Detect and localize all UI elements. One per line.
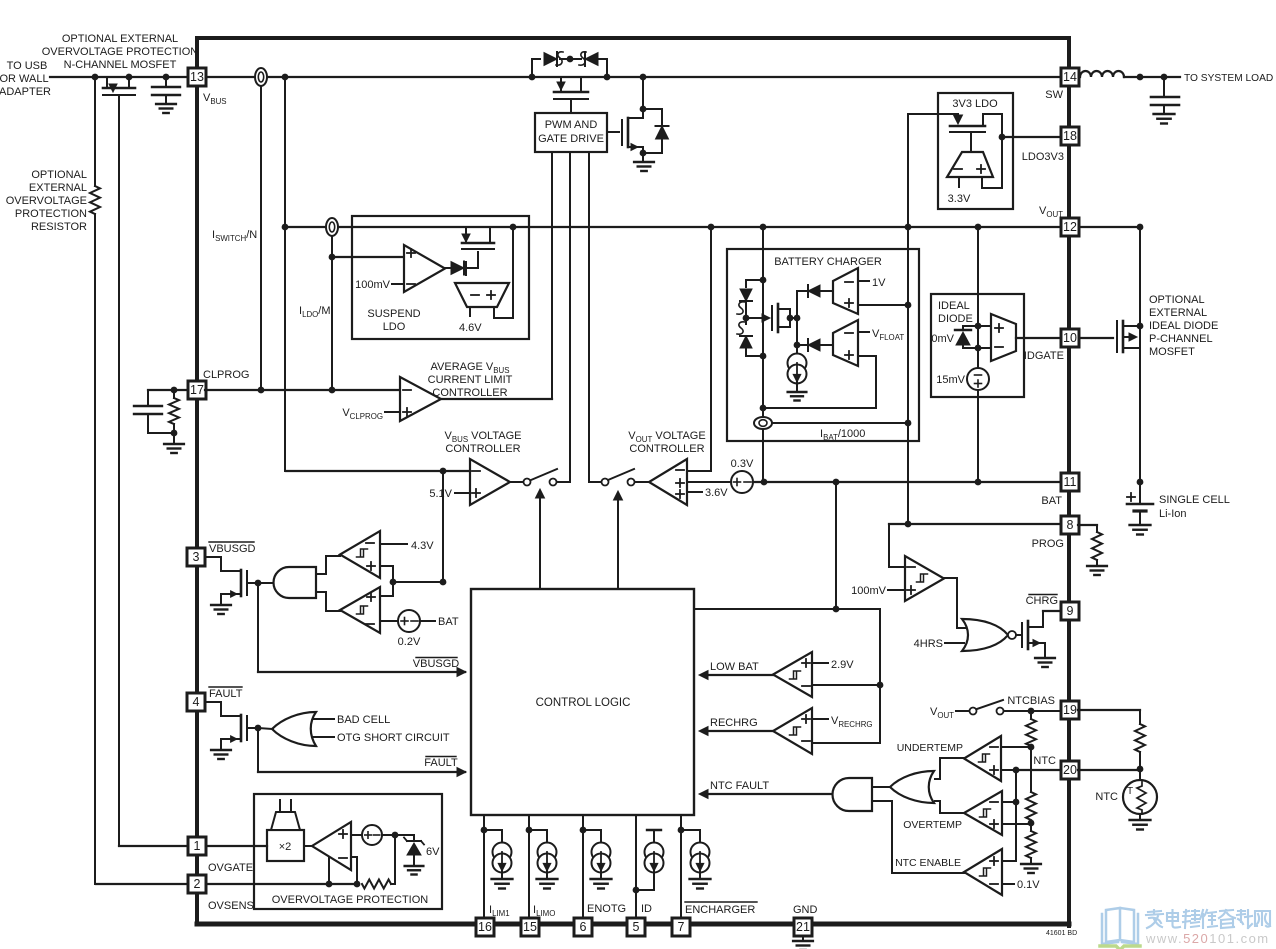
svg-text:OPTIONAL: OPTIONAL bbox=[31, 169, 87, 181]
svg-text:IDEAL: IDEAL bbox=[938, 300, 970, 312]
svg-text:OVERTEMP: OVERTEMP bbox=[903, 819, 962, 831]
svg-text:16: 16 bbox=[478, 920, 492, 934]
svg-text:OTG SHORT CIRCUIT: OTG SHORT CIRCUIT bbox=[337, 732, 450, 744]
svg-text:7: 7 bbox=[678, 920, 685, 934]
svg-text:FAULT: FAULT bbox=[209, 688, 243, 700]
svg-text:12: 12 bbox=[1063, 220, 1077, 234]
svg-text:5: 5 bbox=[633, 920, 640, 934]
svg-text:3.6V: 3.6V bbox=[705, 487, 728, 499]
svg-text:PWM AND: PWM AND bbox=[545, 119, 598, 131]
svg-text:CHRG: CHRG bbox=[1026, 595, 1058, 607]
svg-text:CURRENT LIMIT: CURRENT LIMIT bbox=[428, 374, 513, 386]
svg-text:IDGATE: IDGATE bbox=[1024, 350, 1064, 362]
svg-text:11: 11 bbox=[1064, 475, 1077, 489]
svg-text:4.6V: 4.6V bbox=[459, 322, 482, 334]
svg-text:NTC: NTC bbox=[1033, 755, 1056, 767]
svg-text:NTC ENABLE: NTC ENABLE bbox=[895, 857, 961, 869]
svg-text:RESISTOR: RESISTOR bbox=[31, 221, 87, 233]
svg-text:20: 20 bbox=[1063, 763, 1077, 777]
svg-text:×2: ×2 bbox=[279, 841, 292, 853]
svg-text:CONTROLLER: CONTROLLER bbox=[445, 443, 520, 455]
svg-text:13: 13 bbox=[190, 70, 204, 84]
svg-text:15: 15 bbox=[523, 920, 537, 934]
svg-text:17: 17 bbox=[190, 383, 204, 397]
svg-text:4.3V: 4.3V bbox=[411, 540, 434, 552]
svg-text:14: 14 bbox=[1063, 70, 1077, 84]
svg-text:10: 10 bbox=[1063, 331, 1077, 345]
svg-text:T: T bbox=[1127, 786, 1133, 797]
svg-text:OVERVOLTAGE PROTECTION: OVERVOLTAGE PROTECTION bbox=[42, 46, 199, 58]
svg-text:SINGLE CELL: SINGLE CELL bbox=[1159, 494, 1230, 506]
svg-text:MOSFET: MOSFET bbox=[1149, 346, 1195, 358]
svg-text:100mV: 100mV bbox=[851, 585, 887, 597]
svg-text:4HRS: 4HRS bbox=[914, 638, 943, 650]
svg-text:GND: GND bbox=[793, 904, 818, 916]
svg-text:EXTERNAL: EXTERNAL bbox=[29, 182, 87, 194]
svg-text:PROG: PROG bbox=[1032, 538, 1064, 550]
svg-text:0.1V: 0.1V bbox=[1017, 879, 1040, 891]
svg-text:TO USB: TO USB bbox=[7, 60, 48, 72]
svg-text:OVSENS: OVSENS bbox=[208, 900, 254, 912]
svg-text:EXTERNAL: EXTERNAL bbox=[1149, 307, 1207, 319]
svg-text:ADAPTER: ADAPTER bbox=[0, 86, 51, 98]
svg-text:41601 BD: 41601 BD bbox=[1046, 930, 1077, 937]
svg-text:LDO: LDO bbox=[383, 321, 406, 333]
svg-text:VBUSGD: VBUSGD bbox=[413, 658, 460, 670]
svg-text:ENOTG: ENOTG bbox=[587, 903, 626, 915]
svg-text:GATE DRIVE: GATE DRIVE bbox=[538, 133, 604, 145]
svg-text:0.2V: 0.2V bbox=[398, 636, 421, 648]
svg-text:CONTROLLER: CONTROLLER bbox=[432, 387, 507, 399]
svg-text:LOW BAT: LOW BAT bbox=[710, 661, 759, 673]
svg-text:CONTROLLER: CONTROLLER bbox=[629, 443, 704, 455]
svg-text:OVERVOLTAGE PROTECTION: OVERVOLTAGE PROTECTION bbox=[272, 894, 429, 906]
svg-text:FAULT: FAULT bbox=[424, 757, 458, 769]
svg-text:1: 1 bbox=[194, 839, 201, 853]
svg-text:BAD CELL: BAD CELL bbox=[337, 714, 390, 726]
svg-text:BATTERY CHARGER: BATTERY CHARGER bbox=[774, 256, 882, 268]
svg-text:3: 3 bbox=[193, 550, 200, 564]
svg-text:2.9V: 2.9V bbox=[831, 659, 854, 671]
svg-text:OVGATE: OVGATE bbox=[208, 862, 253, 874]
svg-text:UNDERTEMP: UNDERTEMP bbox=[897, 742, 963, 754]
svg-text:21: 21 bbox=[796, 920, 810, 934]
svg-text:ID: ID bbox=[641, 903, 652, 915]
svg-text:BAT: BAT bbox=[438, 616, 459, 628]
svg-text:NTC: NTC bbox=[1095, 791, 1118, 803]
svg-text:OR WALL: OR WALL bbox=[0, 73, 49, 85]
svg-text:OPTIONAL EXTERNAL: OPTIONAL EXTERNAL bbox=[62, 33, 178, 45]
svg-text:NTC FAULT: NTC FAULT bbox=[710, 780, 769, 792]
svg-text:P-CHANNEL: P-CHANNEL bbox=[1149, 333, 1213, 345]
svg-text:ENCHARGER: ENCHARGER bbox=[685, 904, 755, 916]
svg-text:8: 8 bbox=[1067, 518, 1074, 532]
svg-text:www.520101.com: www.520101.com bbox=[1145, 931, 1270, 946]
svg-text:1V: 1V bbox=[872, 277, 886, 289]
svg-text:TO SYSTEM LOAD: TO SYSTEM LOAD bbox=[1184, 73, 1273, 84]
svg-text:6: 6 bbox=[580, 920, 587, 934]
svg-text:OPTIONAL: OPTIONAL bbox=[1149, 294, 1205, 306]
svg-text:CLPROG: CLPROG bbox=[203, 369, 249, 381]
svg-text:NTCBIAS: NTCBIAS bbox=[1007, 695, 1055, 707]
svg-text:CONTROL LOGIC: CONTROL LOGIC bbox=[536, 697, 631, 709]
svg-text:Li-Ion: Li-Ion bbox=[1159, 508, 1187, 520]
svg-text:0.3V: 0.3V bbox=[731, 458, 754, 470]
svg-text:DIODE: DIODE bbox=[938, 313, 973, 325]
svg-text:3.3V: 3.3V bbox=[948, 193, 971, 205]
svg-text:SUSPEND: SUSPEND bbox=[367, 308, 420, 320]
svg-text:4: 4 bbox=[193, 695, 200, 709]
svg-text:5.1V: 5.1V bbox=[429, 488, 452, 500]
svg-text:3V3 LDO: 3V3 LDO bbox=[952, 98, 998, 110]
svg-text:0mV: 0mV bbox=[931, 333, 954, 345]
svg-text:100mV: 100mV bbox=[355, 279, 391, 291]
svg-text:15mV: 15mV bbox=[936, 374, 965, 386]
svg-text:N-CHANNEL MOSFET: N-CHANNEL MOSFET bbox=[64, 59, 177, 71]
svg-text:9: 9 bbox=[1067, 604, 1074, 618]
svg-text:OVERVOLTAGE: OVERVOLTAGE bbox=[6, 195, 87, 207]
svg-text:2: 2 bbox=[194, 877, 201, 891]
svg-text:SW: SW bbox=[1045, 89, 1063, 101]
svg-text:BAT: BAT bbox=[1041, 495, 1062, 507]
svg-text:PROTECTION: PROTECTION bbox=[15, 208, 87, 220]
svg-text:6V: 6V bbox=[426, 846, 440, 858]
svg-text:VBUSGD: VBUSGD bbox=[209, 543, 256, 555]
svg-text:19: 19 bbox=[1063, 703, 1077, 717]
svg-text:18: 18 bbox=[1063, 129, 1077, 143]
svg-text:LDO3V3: LDO3V3 bbox=[1022, 151, 1064, 163]
svg-text:IDEAL DIODE: IDEAL DIODE bbox=[1149, 320, 1218, 332]
svg-text:RECHRG: RECHRG bbox=[710, 717, 758, 729]
